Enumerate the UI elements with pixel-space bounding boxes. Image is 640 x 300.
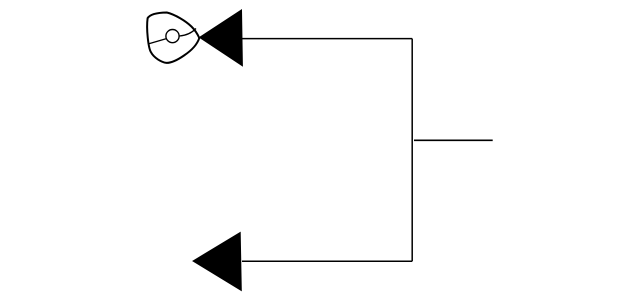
wire: bottom horizontal from bus to A2 — [242, 260, 412, 262]
component U1 inner circle — [166, 29, 179, 42]
amplifier triangle A2 (bottom, pointing left) — [193, 233, 241, 291]
component U1 crossing line (left segment) — [148, 39, 166, 44]
amplifier triangle A1 (top, pointing left) — [200, 10, 243, 66]
wire: output stub (right middle) — [414, 139, 493, 141]
wire: top horizontal from A1 output to right bus — [242, 38, 412, 40]
component U1 (hand-drawn blob body) — [147, 13, 199, 63]
wire: right vertical bus — [411, 39, 413, 262]
component U1 crossing line (right segment) — [179, 29, 196, 37]
